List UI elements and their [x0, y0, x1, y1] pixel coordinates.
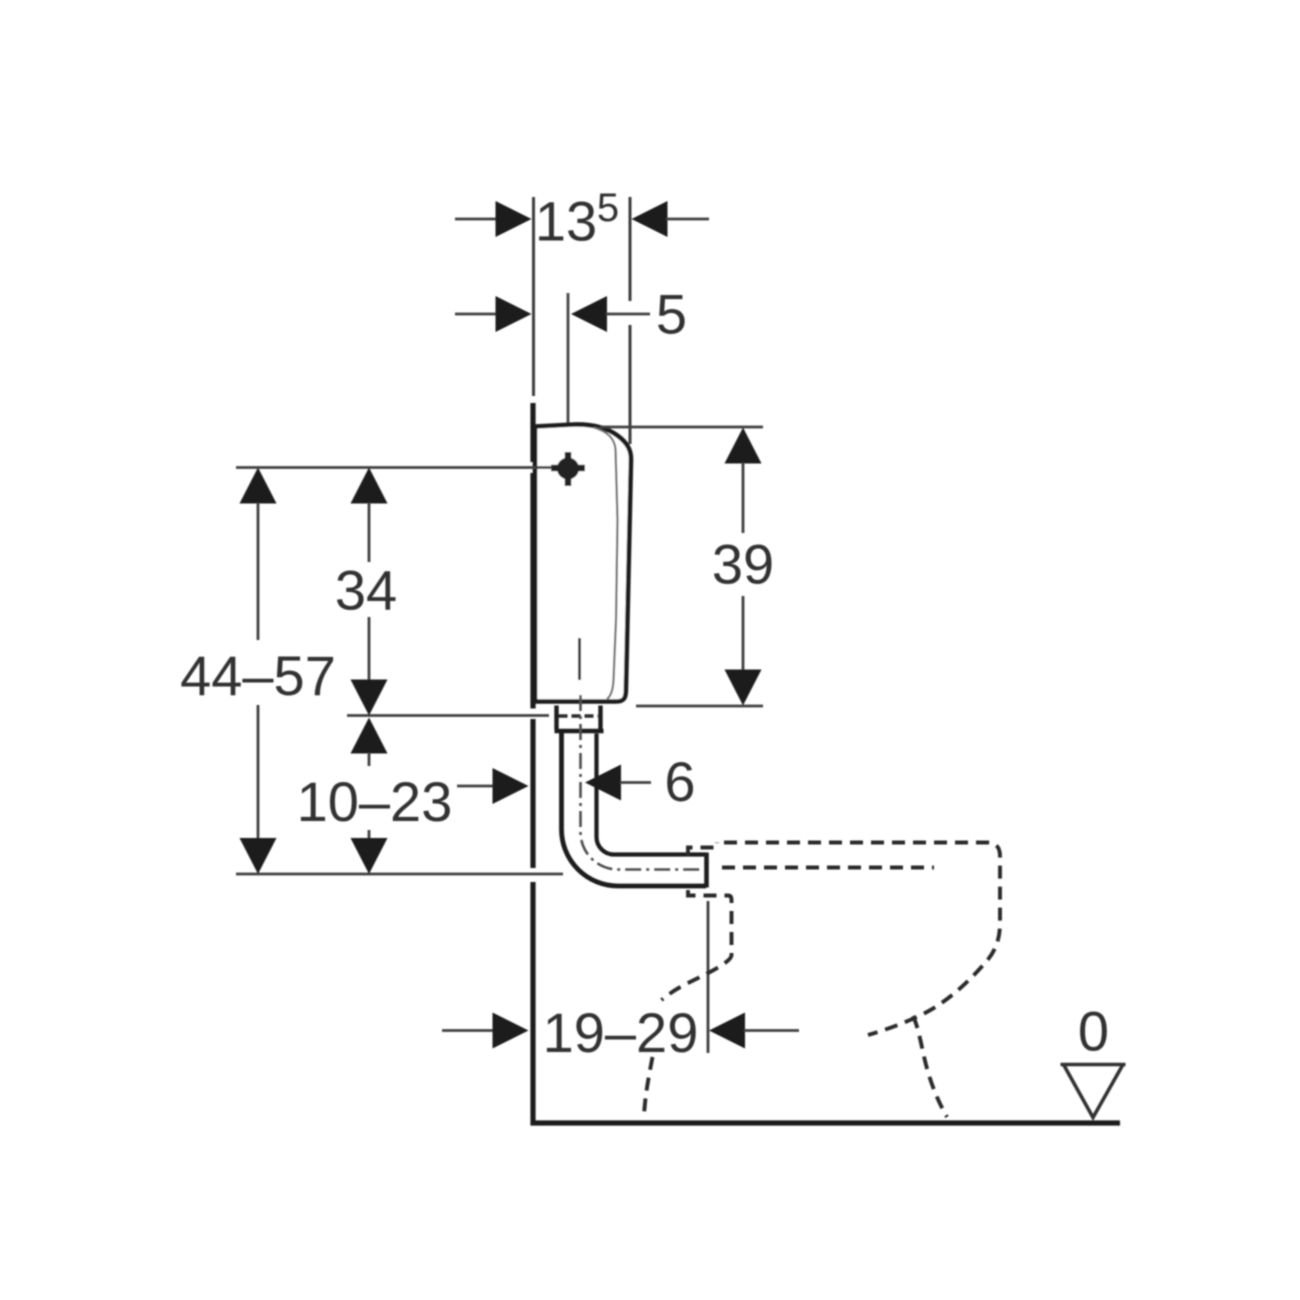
flush valve connector [555, 706, 604, 732]
svg-text:44–57: 44–57 [180, 644, 336, 707]
svg-text:6: 6 [664, 750, 695, 813]
reference line cistern bottom (39) [636, 705, 763, 708]
reference line cistern top (39) [600, 426, 763, 429]
extension line centre (dim 5) [567, 293, 570, 452]
extension line 19-29 [707, 901, 710, 1053]
dimension 5 row [455, 283, 687, 346]
dimension 6 [585, 750, 696, 813]
pipe centre line [581, 695, 704, 870]
extension line wall-top (13.5 left) [532, 197, 535, 396]
pan pedestal front [913, 1016, 947, 1117]
wall screw [551, 452, 585, 486]
svg-text:13: 13 [535, 190, 597, 253]
dimension 39 [712, 428, 774, 706]
cistern front seam line [594, 428, 618, 700]
dimension 19-29 [442, 1001, 799, 1064]
pan spud box top [688, 843, 717, 857]
pan rim underside [722, 866, 934, 870]
svg-text:39: 39 [712, 533, 774, 596]
cistern body [535, 424, 631, 701]
reference line screw level [236, 466, 552, 469]
svg-text:10–23: 10–23 [297, 770, 453, 833]
connector dashed joint [559, 714, 599, 718]
flush pipe [562, 732, 707, 888]
flush mark [578, 638, 581, 680]
svg-text:5: 5 [597, 186, 619, 230]
dimension 13.5 row [455, 186, 709, 253]
pan front outline [662, 890, 732, 1000]
svg-text:19–29: 19–29 [543, 1001, 699, 1064]
pan top and back curve [724, 843, 1000, 1036]
reference line cistern outlet level [347, 714, 549, 717]
floor line [531, 1120, 1121, 1125]
extension line 13.5 right [629, 197, 632, 444]
reference line bend level [236, 873, 563, 876]
datum 0 symbol [1061, 1000, 1126, 1118]
dimension 34 [335, 468, 397, 716]
WC pan dashed outline [644, 843, 1001, 1120]
wall line [530, 403, 535, 1126]
dimension 44-57 [180, 468, 336, 875]
dimension 10-23 [297, 718, 529, 875]
svg-text:0: 0 [1078, 1000, 1109, 1063]
svg-text:5: 5 [656, 283, 687, 346]
svg-text:34: 34 [335, 559, 397, 622]
